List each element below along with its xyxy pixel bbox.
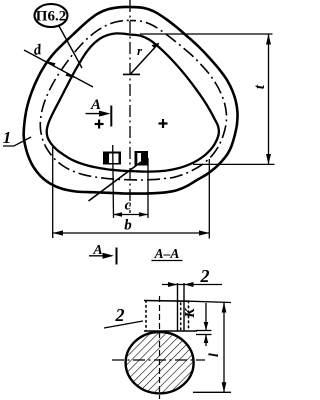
slot left line (extension up to 2-dim) [177,283,179,331]
svg-text:П6.2: П6.2 [36,9,66,25]
ring inner contour [47,33,219,171]
d arrowheads [44,61,56,67]
svg-text:К: К [183,307,198,319]
dimension b extension lines [52,147,54,238]
balloon leader [59,26,82,68]
dimension l bottom extension [193,391,231,393]
dimension l line [223,303,225,393]
dimension c line [113,214,148,216]
dimension K ticks [196,330,212,332]
slot right line [183,283,185,331]
lug right dotted edge [188,301,190,331]
svg-text:b: b [124,218,132,234]
callout balloon П6.2 [35,4,68,27]
lug bottom edge / circle top chord [144,330,197,332]
dimension K line and arrows [205,303,207,330]
corner radius center cross [123,73,140,75]
svg-text:А–А: А–А [154,246,180,261]
lock lug right (top view) [135,151,149,166]
lock lug left (top view) [103,152,121,165]
svg-text:1: 1 [3,128,12,147]
ring outer contour [24,7,238,194]
svg-text:r: r [137,43,143,58]
svg-text:d: d [33,42,43,59]
slot middle dotted [180,303,182,330]
radius r line [131,44,159,75]
vertical dashed centerline of section [159,296,161,399]
ring wire centerline (dash-dot) [40,20,226,180]
dimension d line [24,50,93,87]
svg-text:l: l [207,353,222,357]
section plane diagonal trace [89,162,142,201]
svg-text:c: c [125,198,132,214]
dimension b line [53,232,210,234]
vertical centerline of ring (dash-dot) [129,0,131,213]
lug top edge [144,300,189,303]
dimension t line [268,34,270,164]
svg-text:2: 2 [115,305,125,325]
svg-text:t: t [252,84,268,89]
dimension t bottom extension [193,163,275,165]
gap dimension 2 line [162,284,222,286]
arc center mark left [95,120,104,129]
dimension c extension lines [112,145,115,218]
lug left dotted edge [145,301,147,332]
horizontal dash-dot centerline of section [112,359,205,361]
dimension l top extension [189,301,231,302]
svg-text:A: A [90,97,101,113]
svg-text:2: 2 [200,266,210,286]
dimension t top extension [140,33,273,35]
arc center mark right [159,119,168,128]
lug block (section) [146,301,189,332]
wire cross-section circle (hatched) [126,332,194,393]
